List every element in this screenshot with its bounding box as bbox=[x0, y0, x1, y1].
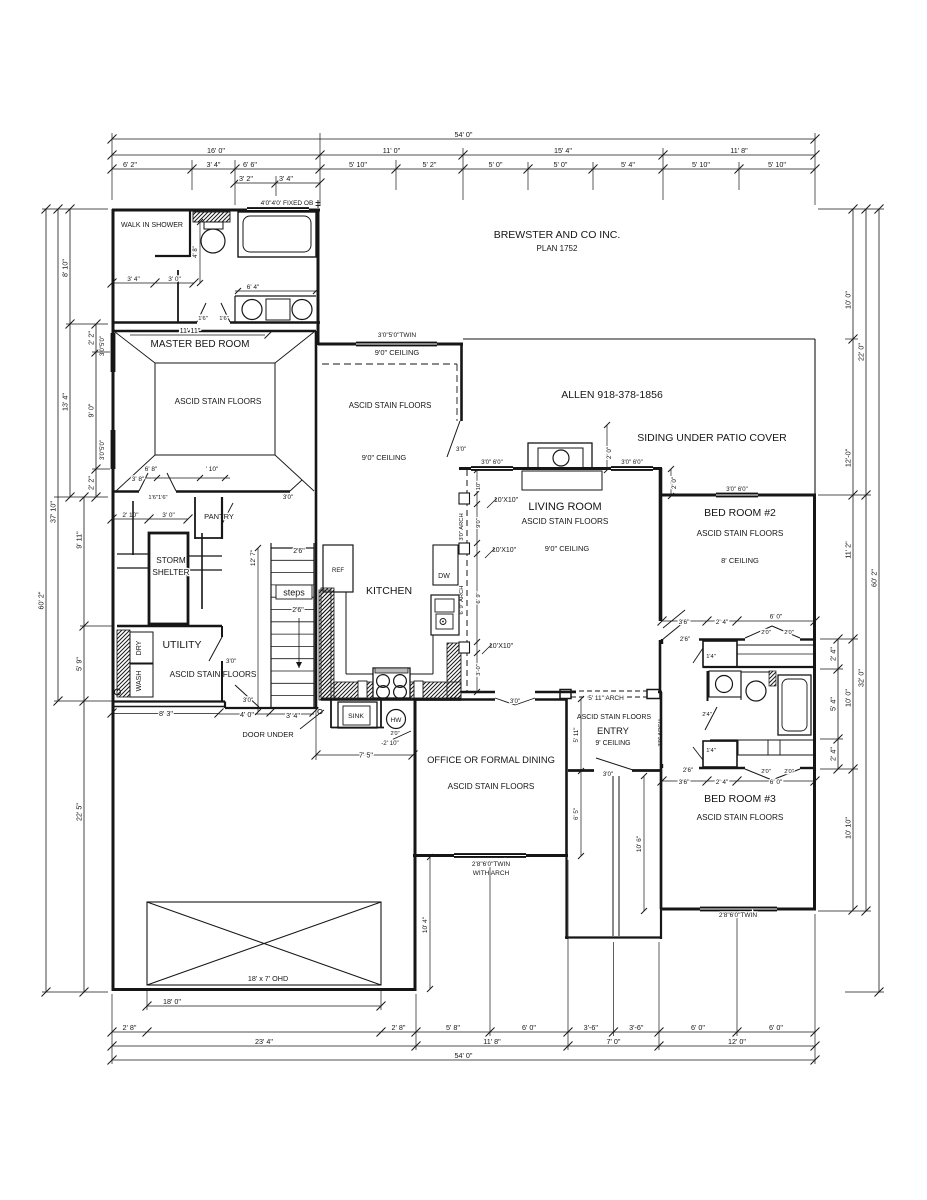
shower dims 3-4 3-0 bbox=[108, 276, 199, 288]
bath double doors bbox=[197, 303, 206, 322]
svg-text:6' 0": 6' 0" bbox=[770, 779, 783, 786]
svg-text:8' 3": 8' 3" bbox=[159, 709, 173, 718]
porch inner step lines bbox=[612, 776, 614, 936]
svg-text:3'0" 6'0": 3'0" 6'0" bbox=[621, 460, 643, 466]
tray ceiling inner rect bbox=[155, 363, 275, 455]
living room windows bbox=[471, 466, 513, 471]
svg-text:3' 0": 3' 0" bbox=[168, 276, 181, 283]
svg-text:10' 4": 10' 4" bbox=[422, 916, 429, 933]
arch jamb left bbox=[560, 690, 571, 699]
svg-text:BREWSTER AND CO INC.: BREWSTER AND CO INC. bbox=[494, 229, 621, 241]
dim 11-11 bbox=[130, 334, 265, 336]
svg-text:2'0": 2'0" bbox=[761, 769, 771, 775]
dim 4-8 bbox=[199, 222, 201, 283]
utility door leaf bbox=[209, 637, 222, 661]
svg-text:steps: steps bbox=[283, 588, 305, 598]
svg-text:5' 10": 5' 10" bbox=[692, 160, 710, 169]
svg-text:2' 0": 2' 0" bbox=[671, 477, 678, 489]
master bedroom south wall bbox=[113, 490, 139, 493]
svg-text:-2' 10": -2' 10" bbox=[381, 740, 398, 747]
hall dim row top bbox=[662, 620, 815, 622]
svg-text:5' 0": 5' 0" bbox=[554, 160, 568, 169]
svg-text:ASCID STAIN FLOORS: ASCID STAIN FLOORS bbox=[697, 529, 784, 538]
svg-text:ASCID STAIN FLOORS: ASCID STAIN FLOORS bbox=[170, 670, 257, 679]
svg-text:2'4": 2'4" bbox=[702, 712, 712, 718]
closet dims under bedroom bbox=[140, 477, 230, 479]
svg-text:ASCID STAIN FLOORS: ASCID STAIN FLOORS bbox=[349, 401, 432, 410]
hall dim 2-10 3-0 bbox=[108, 512, 193, 524]
svg-text:DRY: DRY bbox=[136, 640, 143, 655]
tray ceiling diagonals bbox=[115, 332, 155, 363]
svg-text:13' 4": 13' 4" bbox=[61, 393, 70, 411]
kitchen ceiling break dashed bbox=[322, 363, 457, 365]
porch right wall bbox=[660, 768, 662, 939]
svg-text:23' 4": 23' 4" bbox=[255, 1037, 273, 1046]
left dimension columns bbox=[87, 320, 101, 502]
sink box bbox=[338, 702, 377, 728]
svg-text:5' 11" ARCH: 5' 11" ARCH bbox=[588, 695, 624, 702]
bath2 bottom wall bbox=[710, 739, 738, 741]
svg-text:2' 2": 2' 2" bbox=[87, 476, 96, 490]
svg-text:WALK IN SHOWER: WALK IN SHOWER bbox=[121, 222, 183, 229]
hatch wall bath2 bbox=[769, 671, 776, 686]
garage bottom wall bbox=[112, 988, 416, 991]
svg-text:2' 0": 2' 0" bbox=[606, 447, 613, 459]
svg-text:' 10": ' 10" bbox=[206, 466, 219, 473]
bedroom2 west wall bbox=[660, 496, 663, 621]
svg-text:9'0": 9'0" bbox=[476, 518, 482, 528]
svg-text:11' 2": 11' 2" bbox=[844, 541, 853, 559]
svg-text:3'-0": 3'-0" bbox=[476, 664, 482, 676]
hall door leaves top bbox=[663, 610, 685, 628]
fireplace dim 2-0 bbox=[606, 425, 608, 470]
hall west wall upper bbox=[661, 639, 663, 644]
svg-text:10": 10" bbox=[476, 482, 482, 491]
staircase rails bbox=[271, 548, 314, 708]
office top wall bbox=[415, 698, 495, 701]
svg-text:7' 0": 7' 0" bbox=[607, 1037, 621, 1046]
stairs top corners bbox=[270, 543, 272, 548]
svg-text:10' 10": 10' 10" bbox=[844, 817, 853, 839]
closet2 box bbox=[703, 741, 737, 767]
bath2 door bbox=[705, 707, 717, 730]
svg-text:3'0": 3'0" bbox=[603, 771, 613, 778]
storm shelter box bbox=[149, 533, 188, 624]
svg-text:1'4": 1'4" bbox=[706, 654, 716, 660]
svg-text:3' 4": 3' 4" bbox=[207, 160, 221, 169]
svg-text:3'0"5'0": 3'0"5'0" bbox=[100, 336, 106, 356]
svg-text:1'6"1'6": 1'6"1'6" bbox=[148, 495, 167, 501]
svg-text:ENTRY: ENTRY bbox=[597, 726, 630, 737]
entry to hall wall bbox=[660, 692, 663, 768]
svg-text:5' 4": 5' 4" bbox=[829, 697, 838, 711]
bath south wall bbox=[112, 321, 197, 324]
svg-text:2' 2": 2' 2" bbox=[87, 331, 96, 345]
svg-text:9' 11": 9' 11" bbox=[75, 531, 84, 549]
svg-text:9'0" CEILING: 9'0" CEILING bbox=[375, 348, 420, 357]
top dimension rows bbox=[108, 130, 820, 144]
bedroom2 top wall bbox=[660, 494, 816, 497]
svg-text:PANTRY: PANTRY bbox=[204, 512, 234, 521]
svg-text:1'6": 1'6" bbox=[219, 316, 229, 322]
lower closet shelf bbox=[738, 740, 815, 755]
svg-text:5' 4": 5' 4" bbox=[621, 160, 635, 169]
svg-text:10' 6": 10' 6" bbox=[636, 835, 643, 852]
svg-text:5' 10": 5' 10" bbox=[349, 160, 367, 169]
svg-text:STORM: STORM bbox=[156, 556, 186, 565]
porch dims bbox=[580, 699, 582, 856]
living room east wall bbox=[659, 469, 662, 621]
svg-text:54' 0": 54' 0" bbox=[455, 130, 473, 139]
door leaf kitchen patio door bbox=[447, 421, 460, 457]
svg-text:2'0": 2'0" bbox=[761, 630, 771, 636]
svg-text:2'6": 2'6" bbox=[293, 548, 305, 555]
svg-text:2' 4": 2' 4" bbox=[716, 619, 729, 626]
svg-text:3' 2": 3' 2" bbox=[239, 174, 253, 183]
svg-text:18' 0": 18' 0" bbox=[163, 997, 181, 1006]
bath west wall bbox=[707, 671, 709, 701]
sink bowl right bbox=[292, 300, 312, 320]
svg-text:32' 0": 32' 0" bbox=[857, 669, 866, 687]
dishwasher bbox=[433, 545, 458, 585]
svg-text:3'0": 3'0" bbox=[283, 494, 293, 501]
hatched wall over toilet bbox=[193, 212, 230, 222]
svg-text:12'-0": 12'-0" bbox=[844, 448, 853, 467]
svg-text:2'0": 2'0" bbox=[784, 630, 794, 636]
svg-text:11' 0": 11' 0" bbox=[383, 146, 401, 155]
fireplace bbox=[528, 443, 592, 469]
svg-text:DW: DW bbox=[438, 573, 450, 580]
washer dryer hatch bbox=[117, 630, 130, 697]
fixed window over tub bbox=[247, 207, 309, 212]
opening 3ft to hall bbox=[290, 480, 302, 491]
svg-text:10' 0": 10' 0" bbox=[844, 689, 853, 707]
svg-text:2' 8": 2' 8" bbox=[392, 1023, 406, 1032]
stairs side hatch wall bbox=[319, 590, 331, 700]
svg-text:ASCID STAIN FLOORS: ASCID STAIN FLOORS bbox=[448, 782, 535, 791]
door swing office door bbox=[495, 698, 515, 705]
svg-text:10' 0": 10' 0" bbox=[844, 291, 853, 309]
bifold doors top closet bbox=[745, 626, 772, 638]
office right wall bbox=[565, 699, 568, 856]
svg-text:6' 4": 6' 4" bbox=[247, 284, 260, 291]
stair treads bbox=[271, 559, 314, 561]
svg-text:SHELTER: SHELTER bbox=[152, 568, 189, 577]
closet 1 door leaf bbox=[693, 648, 703, 663]
porch left wall bbox=[565, 856, 567, 939]
svg-text:5' 0": 5' 0" bbox=[489, 160, 503, 169]
hot water heater bbox=[387, 710, 406, 729]
svg-text:11' 11": 11' 11" bbox=[180, 326, 201, 335]
svg-text:22' 0": 22' 0" bbox=[857, 343, 866, 361]
svg-text:37' 10": 37' 10" bbox=[49, 501, 58, 523]
svg-text:60' 2": 60' 2" bbox=[37, 591, 46, 609]
colonnade dim line bbox=[476, 470, 478, 692]
svg-text:ASCID STAIN FLOORS: ASCID STAIN FLOORS bbox=[697, 813, 784, 822]
svg-text:5' 9": 5' 9" bbox=[75, 657, 84, 671]
kitchen top wall bbox=[318, 343, 463, 346]
svg-text:UTILITY: UTILITY bbox=[162, 639, 201, 651]
small circle garage corner bbox=[318, 709, 322, 713]
svg-text:12' 7": 12' 7" bbox=[250, 549, 257, 566]
porch bottom wall bbox=[565, 936, 662, 938]
steps label box bbox=[276, 585, 312, 599]
svg-text:9' 0": 9' 0" bbox=[87, 403, 96, 417]
toilet bath2 bbox=[716, 676, 733, 693]
toilet room bath2 bbox=[709, 671, 741, 697]
svg-text:12' 0": 12' 0" bbox=[728, 1037, 746, 1046]
svg-text:2' 8": 2' 8" bbox=[123, 1023, 137, 1032]
svg-text:ASCID STAIN FLOORS: ASCID STAIN FLOORS bbox=[577, 714, 651, 721]
sink bowl left bbox=[242, 300, 262, 320]
svg-text:10’X10": 10’X10" bbox=[494, 497, 519, 504]
bedroom3 window bbox=[700, 907, 777, 912]
svg-text:15' 4": 15' 4" bbox=[554, 146, 572, 155]
svg-text:2'6": 2'6" bbox=[292, 607, 304, 614]
bottom extension lines bbox=[111, 994, 113, 1064]
svg-text:3'6": 3'6" bbox=[679, 619, 690, 626]
right outer wall (BR2/BR3) bbox=[813, 495, 816, 910]
top extension lines bbox=[111, 133, 113, 200]
office window bbox=[454, 853, 526, 858]
closet bottom wall bbox=[703, 666, 815, 668]
svg-text:MASTER BED ROOM: MASTER BED ROOM bbox=[151, 339, 250, 350]
floor drain bbox=[115, 689, 121, 695]
svg-text:1'4": 1'4" bbox=[706, 748, 716, 754]
hall dim row bottom bbox=[662, 780, 815, 782]
svg-text:9' CEILING: 9' CEILING bbox=[595, 740, 630, 747]
south counter hatch bbox=[334, 682, 461, 698]
master bedroom top wall bbox=[113, 330, 316, 333]
kitchen south wall to office bbox=[321, 698, 461, 700]
pantry walls bbox=[194, 497, 196, 539]
entry arch dashed bbox=[571, 690, 647, 692]
master bedroom right wall bbox=[315, 331, 318, 492]
svg-text:10’X10": 10’X10" bbox=[489, 643, 514, 650]
washer box bbox=[130, 664, 153, 697]
svg-text:ASCID STAIN FLOORS: ASCID STAIN FLOORS bbox=[175, 397, 262, 406]
svg-text:SIDING UNDER PATIO COVER: SIDING UNDER PATIO COVER bbox=[637, 432, 787, 444]
office bottom wall bbox=[413, 854, 568, 857]
walk-in shower walls bbox=[189, 209, 191, 257]
living room south wall bbox=[461, 691, 495, 694]
vanity master bath bbox=[235, 295, 316, 297]
window W2 master bedroom bbox=[111, 430, 116, 469]
svg-text:BED ROOM #2: BED ROOM #2 bbox=[704, 507, 776, 519]
svg-text:4' 0": 4' 0" bbox=[240, 710, 254, 719]
svg-text:11' 8": 11' 8" bbox=[483, 1037, 501, 1046]
refrigerator bbox=[323, 545, 353, 592]
svg-text:7' 5": 7' 5" bbox=[359, 751, 373, 760]
svg-text:5' 11": 5' 11" bbox=[573, 728, 580, 743]
svg-text:5' 8": 5' 8" bbox=[446, 1023, 460, 1032]
hearth bbox=[522, 471, 602, 490]
window W1 master bedroom bbox=[111, 333, 116, 372]
garage top wall left bbox=[113, 700, 225, 702]
sink closet walls bbox=[330, 700, 332, 728]
svg-text:3' 4": 3' 4" bbox=[127, 276, 140, 283]
bedroom3 bottom wall bbox=[660, 908, 816, 911]
svg-text:5' 10": 5' 10" bbox=[768, 160, 786, 169]
colonnade dashed arch line bbox=[466, 470, 468, 692]
svg-text:2' 10": 2' 10" bbox=[122, 512, 139, 519]
svg-text:6' 0": 6' 0" bbox=[522, 1023, 536, 1032]
svg-text:3'6": 3'6" bbox=[679, 779, 690, 786]
svg-text:10’X10": 10’X10" bbox=[492, 547, 517, 554]
svg-text:3' 4": 3' 4" bbox=[279, 174, 293, 183]
outer wall top (bath section) bbox=[112, 209, 320, 212]
svg-text:6' 5": 6' 5" bbox=[573, 808, 580, 820]
column posts 10x10 bbox=[459, 493, 470, 504]
bedroom double doors bbox=[139, 473, 148, 491]
living room top wall bbox=[459, 467, 662, 470]
svg-text:2'8"6'0"TWIN: 2'8"6'0"TWIN bbox=[472, 861, 510, 868]
arch jamb right bbox=[647, 690, 660, 699]
svg-text:3' 4": 3' 4" bbox=[286, 711, 300, 720]
entry front door bbox=[594, 767, 632, 775]
west counter hatch bbox=[321, 588, 334, 698]
office/garage left wall bbox=[414, 699, 417, 991]
svg-text:3'-6": 3'-6" bbox=[629, 1023, 644, 1032]
svg-text:2' 4": 2' 4" bbox=[829, 647, 838, 661]
svg-text:OFFICE OR FORMAL DINING: OFFICE OR FORMAL DINING bbox=[427, 754, 555, 765]
svg-text:6' 6": 6' 6" bbox=[243, 160, 257, 169]
svg-text:2'6": 2'6" bbox=[683, 767, 693, 774]
svg-text:2' 4": 2' 4" bbox=[716, 779, 729, 786]
svg-text:6' 9" ARCH: 6' 9" ARCH bbox=[459, 586, 465, 615]
kitchen top window bbox=[356, 342, 437, 347]
svg-text:16' 0": 16' 0" bbox=[207, 146, 225, 155]
dim 18-0 bbox=[147, 1005, 381, 1007]
svg-text:PLAN 1752: PLAN 1752 bbox=[537, 244, 578, 253]
svg-text:6' 0": 6' 0" bbox=[770, 614, 783, 621]
svg-text:3'0": 3'0" bbox=[456, 446, 466, 453]
stairs down arrow bbox=[298, 618, 300, 668]
svg-text:6' 2": 6' 2" bbox=[123, 160, 137, 169]
svg-text:2'0": 2'0" bbox=[390, 731, 399, 737]
sink bowl bath2 bbox=[746, 681, 766, 701]
svg-text:8' CEILING: 8' CEILING bbox=[721, 556, 759, 565]
svg-text:54' 0": 54' 0" bbox=[455, 1051, 473, 1060]
svg-text:18' x 7' OHD: 18' x 7' OHD bbox=[248, 974, 288, 983]
hw door leaf bbox=[387, 731, 411, 742]
svg-text:3'0" 6'0": 3'0" 6'0" bbox=[726, 487, 748, 493]
svg-text:WASH: WASH bbox=[136, 671, 143, 692]
svg-text:6' 9": 6' 9" bbox=[476, 592, 482, 603]
svg-text:3' 8": 3' 8" bbox=[132, 476, 145, 483]
bedroom3 walls bbox=[660, 768, 663, 909]
svg-text:3'0": 3'0" bbox=[510, 698, 520, 705]
dim 8-3 line bbox=[112, 713, 219, 715]
right extension lines bbox=[818, 208, 884, 210]
svg-text:ALLEN 918-378-1856: ALLEN 918-378-1856 bbox=[561, 389, 663, 401]
svg-text:6' 8": 6' 8" bbox=[145, 466, 158, 473]
jog dim 2-0 bbox=[670, 469, 672, 496]
garage top wall under stairs bbox=[225, 707, 318, 709]
svg-text:3'0"5'0": 3'0"5'0" bbox=[100, 440, 106, 460]
svg-text:LIVING ROOM: LIVING ROOM bbox=[528, 501, 601, 513]
dim 6-4 vanity bbox=[235, 290, 316, 292]
svg-text:3'0"5'0"TWIN: 3'0"5'0"TWIN bbox=[378, 332, 416, 339]
tub bath2 bbox=[778, 675, 811, 735]
hall south wall x316 bbox=[315, 492, 318, 708]
right dimension columns bbox=[829, 635, 843, 774]
svg-text:REF: REF bbox=[332, 568, 344, 574]
svg-text:4' 8": 4' 8" bbox=[193, 246, 199, 258]
storm shelter room walls bbox=[132, 501, 134, 555]
svg-text:2'8"6'0"TWIN: 2'8"6'0"TWIN bbox=[719, 912, 757, 919]
patio edge lines bbox=[463, 338, 815, 340]
svg-text:ASCID STAIN FLOORS: ASCID STAIN FLOORS bbox=[522, 517, 609, 526]
svg-text:1'6": 1'6" bbox=[198, 316, 208, 322]
svg-text:6' 0": 6' 0" bbox=[691, 1023, 705, 1032]
svg-text:4'0"4'0' FIXED OB: 4'0"4'0' FIXED OB bbox=[261, 200, 314, 207]
entry front wall bbox=[568, 769, 662, 772]
tub master bath bbox=[238, 212, 316, 257]
kitchen nook east wall bbox=[460, 344, 463, 421]
bedroom2 window bbox=[716, 493, 758, 498]
svg-text:BED ROOM #3: BED ROOM #3 bbox=[704, 793, 776, 805]
svg-text:3'0" 6'0": 3'0" 6'0" bbox=[481, 460, 503, 466]
svg-text:9'0" CEILING: 9'0" CEILING bbox=[545, 544, 590, 553]
wall oven bbox=[431, 595, 459, 635]
svg-text:2'0": 2'0" bbox=[784, 769, 794, 775]
garage door X box bbox=[147, 902, 381, 985]
range/stove bbox=[373, 668, 410, 698]
svg-text:3' 0": 3' 0" bbox=[162, 512, 175, 519]
counter posts bbox=[358, 681, 367, 698]
dryer box bbox=[130, 632, 153, 663]
svg-text:9'0" CEILING: 9'0" CEILING bbox=[362, 453, 407, 462]
svg-text:3'-6": 3'-6" bbox=[584, 1023, 599, 1032]
dim 7-5 bbox=[316, 754, 413, 756]
toilet master bath bbox=[204, 222, 223, 229]
svg-text:SINK: SINK bbox=[348, 713, 364, 720]
door leaf LR to hall bbox=[662, 622, 684, 640]
utility top wall bbox=[117, 625, 222, 627]
svg-text:3'0": 3'0" bbox=[243, 697, 253, 704]
stairs dim 12-7 bbox=[257, 548, 259, 712]
svg-text:2' 4": 2' 4" bbox=[829, 747, 838, 761]
svg-text:HW: HW bbox=[391, 717, 403, 724]
svg-text:5' 2": 5' 2" bbox=[423, 160, 437, 169]
svg-text:2'6": 2'6" bbox=[680, 636, 690, 643]
svg-text:WITH ARCH: WITH ARCH bbox=[473, 870, 510, 877]
jog wall LR to BR2 bbox=[660, 468, 663, 496]
svg-text:11' 8": 11' 8" bbox=[730, 146, 748, 155]
linen shelf top bbox=[737, 645, 815, 667]
svg-text:6' 0": 6' 0" bbox=[769, 1023, 783, 1032]
svg-text:KITCHEN: KITCHEN bbox=[366, 585, 412, 597]
counter front edges bbox=[345, 592, 347, 674]
left extension lines bbox=[42, 208, 108, 210]
lower closet wall bbox=[699, 767, 745, 769]
closet top wall bbox=[699, 638, 745, 640]
door under stairs bbox=[235, 685, 259, 707]
svg-text:3'0": 3'0" bbox=[226, 658, 236, 665]
bath right / kitchen west upper wall bbox=[317, 209, 320, 345]
svg-text:DOOR UNDER: DOOR UNDER bbox=[242, 730, 294, 739]
outer wall left bbox=[112, 209, 115, 991]
svg-text:3'0" ARCH: 3'0" ARCH bbox=[459, 513, 465, 540]
closet 1 box bbox=[703, 641, 737, 667]
vanity bath2 bbox=[741, 671, 770, 673]
svg-text:60' 2": 60' 2" bbox=[870, 569, 879, 587]
svg-text:22' 5": 22' 5" bbox=[75, 803, 84, 821]
svg-text:8' 10": 8' 10" bbox=[61, 259, 70, 277]
